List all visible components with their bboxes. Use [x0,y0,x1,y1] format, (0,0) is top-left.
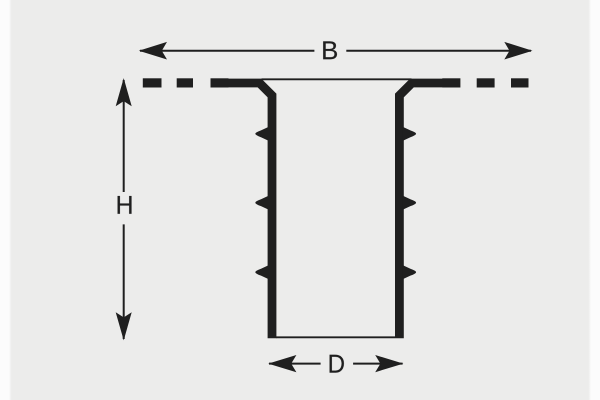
thick dashed flange line right [442,78,528,87]
label H [118,196,132,214]
left wall barb 2 [255,196,268,210]
left wall barb 1 [255,127,268,141]
left flange and wall profile [229,83,273,338]
dimension H top arrowhead [116,78,132,106]
label D [330,355,344,373]
dimension B left arrowhead [139,42,167,60]
right wall barb 3 [403,265,416,279]
right wall barb 2 [403,196,416,210]
dimension D line right segment [353,363,403,365]
dimension H line bottom segment [123,224,125,339]
dimension D left arrowhead [268,355,296,372]
right wall barb 1 [403,127,416,141]
dimension B line left segment [140,50,314,52]
dimension D line left segment [269,363,321,365]
thin top line between corners [262,78,412,80]
dimension D right arrowhead [375,355,403,372]
left wall barb 3 [255,265,268,279]
thick dashed flange line left [143,78,229,87]
dimension B right arrowhead [504,42,532,60]
thin bottom line between walls [276,336,395,338]
dimension B line right segment [346,50,531,52]
dimension H line top segment [123,80,125,192]
label B [323,41,337,59]
dimension H bottom arrowhead [116,312,132,340]
right flange and wall profile [399,83,443,338]
